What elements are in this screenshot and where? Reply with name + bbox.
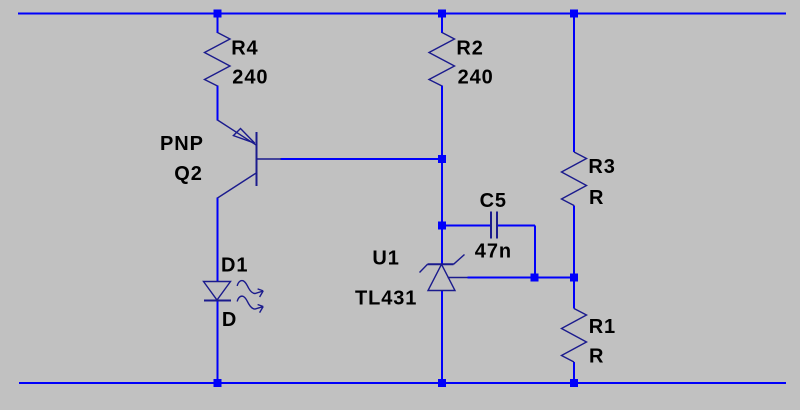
wire right column top (rail to R3)	[573, 14, 575, 153]
resistor R2	[429, 33, 455, 87]
svg-text:TL431: TL431	[355, 287, 417, 309]
wire C5 right plate to corner	[498, 225, 536, 227]
resistor R3	[562, 152, 587, 206]
node ref/divider junction	[570, 274, 578, 282]
capacitor C5 left plate	[490, 212, 492, 239]
node C5/ref junction	[531, 274, 539, 282]
wire R4 to Q2 emitter	[217, 86, 219, 121]
svg-text:R3: R3	[588, 156, 615, 178]
svg-text:R2: R2	[456, 38, 483, 60]
capacitor C5 right plate	[496, 212, 498, 239]
wire left column top (rail to R4)	[217, 14, 219, 34]
wire R3 to R1	[573, 206, 575, 309]
TL431 U1 cathode right tick	[454, 255, 465, 265]
node top-middle junction	[438, 10, 446, 18]
wire middle column top (rail to R2)	[441, 14, 443, 34]
node top-right junction	[570, 10, 578, 18]
svg-text:Q2: Q2	[174, 163, 202, 185]
TL431 U1 triangle	[428, 264, 455, 290]
TL431 U1 cathode left tick	[420, 264, 428, 272]
LED D1 photon arrow upper	[237, 281, 263, 297]
svg-text:D: D	[222, 309, 237, 331]
transistor Q2 base stub	[257, 158, 282, 160]
TL431 U1 cathode bar	[428, 263, 454, 265]
node bottom-middle junction	[438, 379, 446, 387]
transistor Q2 base bar	[256, 132, 258, 186]
wire cathode node to C5 left plate	[442, 225, 490, 227]
TL431 U1 ref stub	[448, 277, 468, 279]
svg-text:240: 240	[458, 66, 494, 88]
svg-text:R: R	[589, 187, 604, 209]
svg-text:U1: U1	[372, 248, 399, 270]
node bottom-right junction	[570, 379, 578, 387]
svg-text:C5: C5	[480, 190, 507, 212]
wire D1 to bottom rail	[217, 300, 219, 383]
svg-text:47n: 47n	[475, 240, 512, 262]
wire U1 anode to bottom rail	[441, 291, 443, 384]
wire R2 to U1 cathode	[441, 86, 443, 265]
resistor R1	[562, 309, 587, 363]
transistor Q2 emitter diagonal	[218, 120, 257, 145]
LED D1 triangle	[204, 282, 231, 301]
wire top rail	[18, 13, 786, 15]
svg-text:240: 240	[232, 66, 268, 88]
transistor Q2 emitter arrow	[233, 129, 254, 144]
node base junction	[438, 155, 446, 163]
wire Q2 base to middle column	[281, 158, 443, 160]
wire bottom rail	[19, 382, 786, 384]
wire R1 to bottom rail	[573, 362, 575, 383]
svg-text:R1: R1	[589, 316, 616, 338]
svg-text:PNP: PNP	[160, 133, 204, 155]
LED D1 cathode bar	[204, 300, 231, 302]
wire ref node horizontal	[468, 277, 575, 279]
node bottom-left junction	[214, 379, 222, 387]
resistor R4	[205, 33, 231, 87]
wire C5 corner down	[534, 226, 536, 278]
node cathode/C5 junction	[438, 222, 446, 230]
svg-text:R4: R4	[231, 38, 258, 60]
transistor Q2 collector diagonal	[218, 173, 257, 198]
svg-text:D1: D1	[221, 255, 248, 277]
LED D1 photon arrow lower	[237, 296, 263, 312]
svg-text:R: R	[589, 345, 604, 367]
node top-left junction	[214, 10, 222, 18]
wire Q2 collector to D1	[217, 198, 219, 282]
